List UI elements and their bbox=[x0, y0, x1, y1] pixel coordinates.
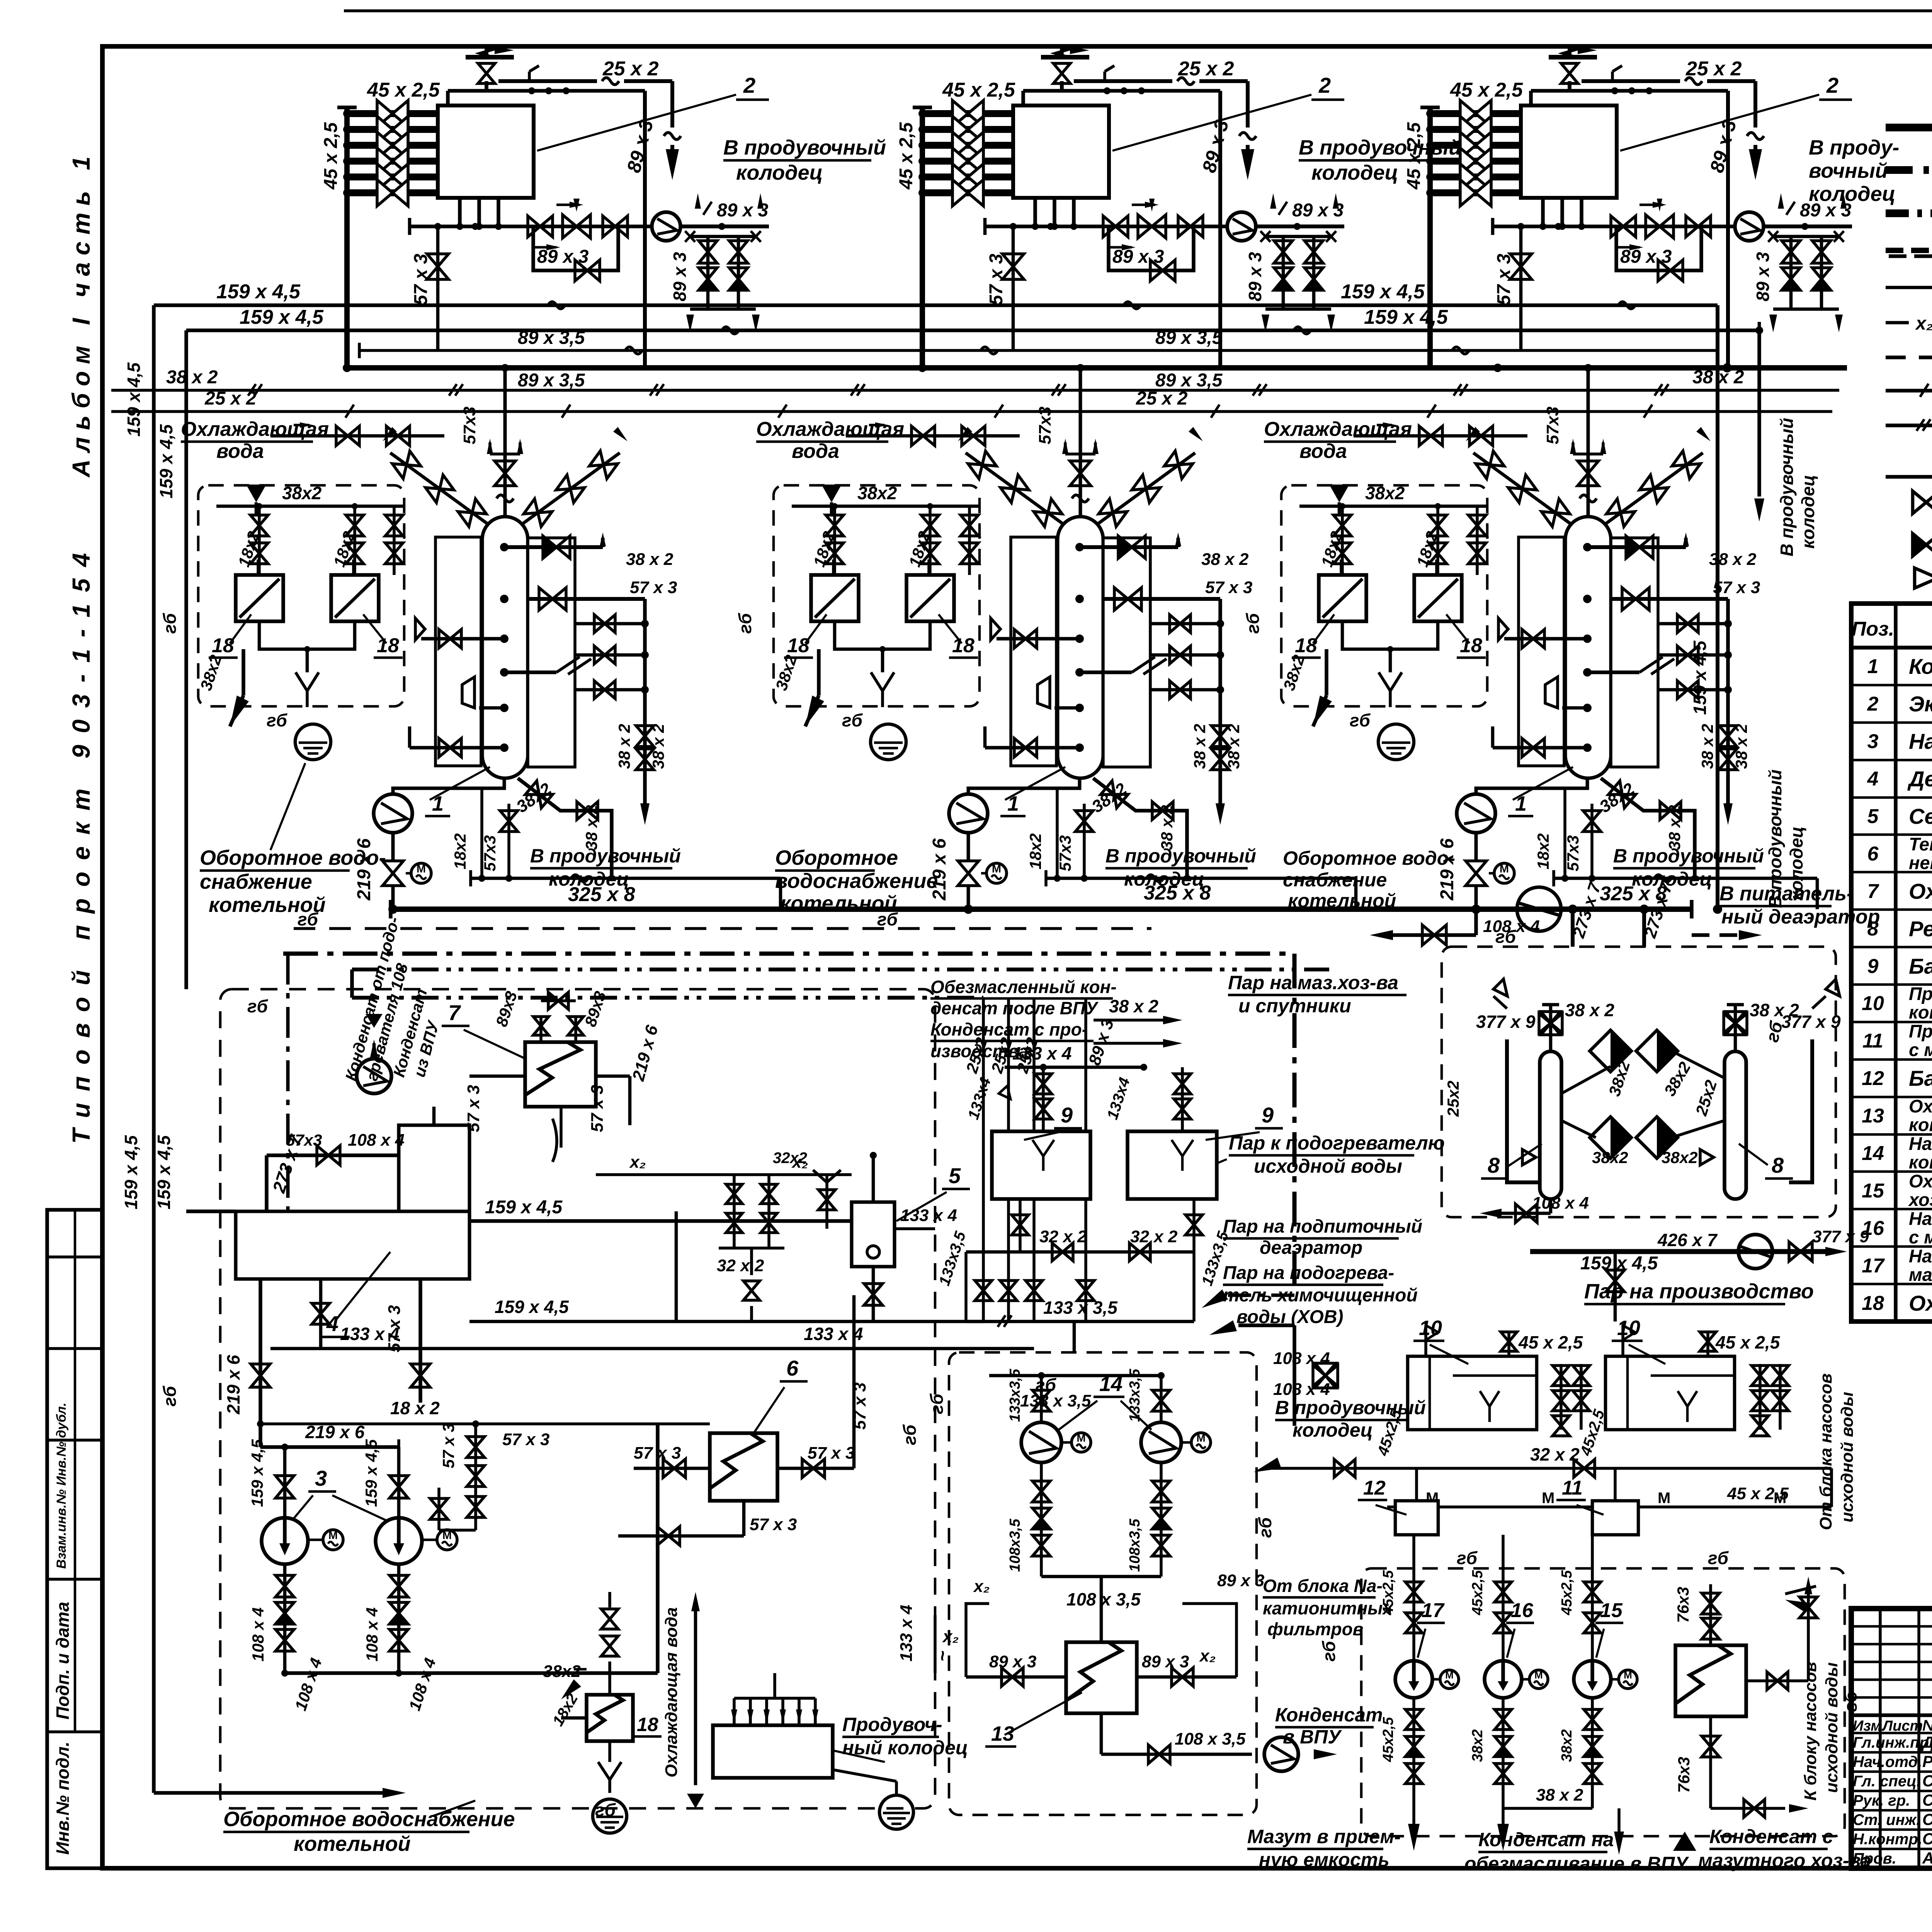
svg-text:№ докум.: № докум. bbox=[1922, 1717, 1932, 1734]
svg-text:гб: гб bbox=[1255, 1517, 1275, 1538]
svg-text:57x3: 57x3 bbox=[481, 835, 499, 871]
svg-text:Изм.: Изм. bbox=[1853, 1718, 1886, 1734]
hx13 outlet to VPU bbox=[1100, 1713, 1103, 1754]
drain of hx18 bbox=[608, 1741, 611, 1762]
svg-text:12: 12 bbox=[1862, 1067, 1884, 1090]
svg-text:M: M bbox=[417, 863, 426, 875]
svg-text:колодец: колодец bbox=[1311, 161, 1398, 184]
legend line kondensat bbox=[1886, 355, 1932, 359]
box 12 bbox=[1395, 1501, 1438, 1535]
boiler 2 left screen bbox=[1011, 537, 1056, 766]
svg-text:x₂: x₂ bbox=[1199, 1646, 1216, 1665]
svg-text:38x2: 38x2 bbox=[1592, 1148, 1628, 1167]
legend line pitatelnoy vody bbox=[1886, 286, 1932, 289]
svg-text:38x2: 38x2 bbox=[1469, 1729, 1486, 1762]
svg-text:38x2: 38x2 bbox=[1365, 483, 1405, 503]
svg-text:2: 2 bbox=[743, 73, 755, 97]
svg-text:108 x 3,5: 108 x 3,5 bbox=[1066, 1589, 1141, 1609]
svg-text:Пар на подпиточный: Пар на подпиточный bbox=[1223, 1216, 1422, 1237]
133x4 line from separator down bbox=[270, 1347, 1034, 1350]
svg-text:М: М bbox=[1658, 1490, 1670, 1507]
38x2 bottom line bbox=[1503, 1807, 1592, 1810]
svg-text:Мазут в прием-: Мазут в прием- bbox=[1247, 1826, 1401, 1847]
svg-text:колодец: колодец bbox=[1786, 827, 1806, 900]
drain header under drum bbox=[471, 877, 781, 880]
svg-text:45 x 2,5: 45 x 2,5 bbox=[1715, 1332, 1781, 1352]
svg-text:18: 18 bbox=[637, 1714, 658, 1735]
pos leader 2 bbox=[1112, 95, 1311, 151]
drum steam feed from economizer riser bbox=[1611, 597, 1728, 601]
M traced line 45x2,5 bbox=[1387, 1505, 1832, 1509]
svg-text:4: 4 bbox=[1867, 768, 1879, 790]
block 8 dashed box bbox=[1442, 947, 1836, 1217]
svg-text:водоснабжение: водоснабжение bbox=[775, 869, 938, 893]
valves above probe coolers 18x2 bbox=[792, 505, 980, 508]
block 18 boundary dashed box bbox=[774, 485, 980, 706]
svg-text:с мазутного хозяйства: с мазутного хозяйства bbox=[1909, 1039, 1932, 1060]
svg-text:45x2,5: 45x2,5 bbox=[1380, 1717, 1396, 1762]
condensate header into deaerator column bbox=[469, 1320, 983, 1323]
32x2 line bbox=[1267, 1467, 1832, 1470]
drum upper right check valve line bbox=[1080, 545, 1178, 549]
svg-text:гб: гб bbox=[927, 1393, 947, 1414]
hx 7 vypar cooler bbox=[525, 1042, 596, 1107]
svg-text:45 x 2,5: 45 x 2,5 bbox=[1518, 1332, 1583, 1352]
svg-text:45 x 2,5: 45 x 2,5 bbox=[367, 79, 440, 101]
svg-text:6: 6 bbox=[786, 1356, 799, 1380]
svg-text:89 x 3: 89 x 3 bbox=[1217, 1571, 1264, 1590]
blowdown well bbox=[713, 1725, 833, 1778]
svg-text:2: 2 bbox=[1867, 693, 1879, 715]
svg-text:45x2,5: 45x2,5 bbox=[1469, 1570, 1486, 1616]
svg-text:Промежуточный бак конденсата: Промежуточный бак конденсата bbox=[1909, 1021, 1932, 1041]
18x2 recirculation line bbox=[260, 1422, 710, 1425]
svg-text:3: 3 bbox=[315, 1466, 327, 1490]
legend line x2 himochishchennoy bbox=[1886, 321, 1909, 325]
svg-text:M: M bbox=[1624, 1669, 1632, 1681]
svg-text:25 x 2: 25 x 2 bbox=[204, 388, 257, 409]
svg-text:89 x 3: 89 x 3 bbox=[1753, 252, 1773, 301]
svg-text:вода: вода bbox=[1299, 440, 1347, 463]
svg-text:325 x 8: 325 x 8 bbox=[1144, 882, 1211, 904]
svg-text:15: 15 bbox=[1600, 1599, 1623, 1622]
svg-text:5: 5 bbox=[949, 1163, 961, 1188]
probe cooler outlet funnel and drain bbox=[1342, 621, 1438, 649]
economizer 2 body bbox=[438, 105, 534, 198]
svg-text:гб: гб bbox=[247, 996, 269, 1016]
svg-text:7: 7 bbox=[1867, 880, 1879, 903]
pumps 14 pair bbox=[1040, 1376, 1043, 1422]
svg-text:8: 8 bbox=[1772, 1153, 1784, 1177]
periodic blowdown from drum bottom bbox=[1601, 778, 1695, 878]
economizer top piping bbox=[1021, 91, 1025, 105]
svg-text:Оборотное водо-: Оборотное водо- bbox=[200, 846, 386, 869]
svg-text:Подп. и дата: Подп. и дата bbox=[53, 1602, 73, 1719]
svg-text:89 x 3,5: 89 x 3,5 bbox=[518, 370, 585, 391]
cooling water funnel bbox=[821, 485, 842, 502]
svg-text:с мазутного хозяйства ВК-2/: с мазутного хозяйства ВК-2/26 bbox=[1909, 1227, 1932, 1247]
svg-text:Гл. спец.: Гл. спец. bbox=[1853, 1773, 1921, 1790]
svg-text:Продувоч-: Продувоч- bbox=[842, 1714, 942, 1735]
svg-text:76x3: 76x3 bbox=[1675, 1757, 1693, 1793]
return water line bottom left bbox=[154, 1791, 383, 1795]
periodic blowdown from drum bottom bbox=[518, 778, 612, 878]
tank 10 right bbox=[1605, 1356, 1735, 1430]
probe coolers 18 pair bbox=[811, 575, 859, 621]
svg-text:38 x 2: 38 x 2 bbox=[1536, 1786, 1583, 1804]
boiler circulating pump 219x6 bbox=[393, 778, 504, 794]
svg-text:16: 16 bbox=[1862, 1217, 1884, 1240]
boiler unit 3: economizer U2 valve bundle bbox=[1430, 110, 1521, 117]
drum left blowoff lines bbox=[1504, 637, 1587, 641]
svg-text:x₂: x₂ bbox=[973, 1577, 990, 1596]
svg-text:Приемный бак-отстойник: Приемный бак-отстойник bbox=[1909, 983, 1932, 1004]
svg-text:Охладитель производственного: Охладитель производственного bbox=[1909, 1096, 1932, 1116]
economizer 2 manifold bbox=[920, 107, 925, 368]
svg-text:Думан: Думан bbox=[1921, 1733, 1932, 1751]
svg-text:гб: гб bbox=[160, 612, 180, 634]
svg-text:14: 14 bbox=[1099, 1372, 1122, 1396]
blowdown line 25x2 to well bbox=[1074, 79, 1172, 83]
svg-text:вода: вода bbox=[792, 440, 839, 463]
svg-text:57 x 3: 57 x 3 bbox=[808, 1444, 855, 1463]
svg-text:57 x 3: 57 x 3 bbox=[502, 1430, 549, 1449]
svg-text:17: 17 bbox=[1862, 1255, 1885, 1277]
economizer 2 manifold bbox=[1427, 107, 1433, 368]
hx 15 mazut condensate cooler bbox=[1675, 1645, 1746, 1716]
svg-text:45x2,5: 45x2,5 bbox=[1559, 1570, 1575, 1616]
drain header under drum bbox=[1554, 877, 1817, 880]
svg-text:38 x 2: 38 x 2 bbox=[166, 367, 218, 388]
svg-text:M: M bbox=[328, 1529, 338, 1542]
valves above probe coolers 18x2 bbox=[1299, 505, 1487, 508]
svg-text:тель химочищенной: тель химочищенной bbox=[1223, 1285, 1418, 1306]
svg-text:катионитных: катионитных bbox=[1263, 1598, 1393, 1618]
svg-text:89 x 3,5: 89 x 3,5 bbox=[518, 328, 585, 348]
svg-text:7: 7 bbox=[448, 1000, 461, 1025]
svg-text:исходной воды: исходной воды bbox=[1822, 1662, 1841, 1793]
probe cooler outlet funnel and drain bbox=[259, 621, 355, 649]
svg-text:219 x 6: 219 x 6 bbox=[305, 1422, 365, 1442]
89x3 riser from economizer bbox=[1726, 91, 1730, 368]
parts table grid bbox=[1851, 604, 1932, 1321]
svg-text:18: 18 bbox=[952, 634, 975, 657]
blowdown line 25x2 to well bbox=[498, 79, 597, 83]
legend zadvizhka ventil bbox=[1913, 491, 1932, 514]
svg-text:32 x 2: 32 x 2 bbox=[1130, 1227, 1178, 1246]
boiler 2 right screen bbox=[1103, 538, 1150, 767]
svg-text:M: M bbox=[1534, 1669, 1543, 1681]
reduction valves black diamonds bbox=[1590, 1030, 1631, 1071]
cooling water inlet bbox=[1354, 434, 1527, 438]
svg-text:426 x 7: 426 x 7 bbox=[1657, 1230, 1718, 1250]
hx 18 sample cooler bottom bbox=[587, 1695, 633, 1741]
svg-text:Конденсат с про-: Конденсат с про- bbox=[930, 1019, 1088, 1039]
economizer outlet header bbox=[458, 198, 462, 226]
svg-text:89 x 3,5: 89 x 3,5 bbox=[1155, 370, 1223, 391]
svg-text:38 x 2: 38 x 2 bbox=[582, 805, 600, 850]
svg-text:25 x 2: 25 x 2 bbox=[1136, 388, 1188, 409]
108x4 branch from feed bus bbox=[1474, 909, 1478, 935]
svg-text:25 x 2: 25 x 2 bbox=[1685, 58, 1742, 80]
tank 9 left bbox=[992, 1131, 1090, 1199]
svg-text:В продувочный: В продувочный bbox=[1765, 769, 1785, 908]
svg-text:38x2: 38x2 bbox=[857, 483, 897, 503]
svg-text:Взам.инв.№ Инв.№ дубл.: Взам.инв.№ Инв.№ дубл. bbox=[54, 1403, 69, 1569]
boiler 1 right screen bbox=[528, 538, 575, 767]
deaerator 4 tank bbox=[236, 1211, 469, 1279]
svg-text:159 x 4,5: 159 x 4,5 bbox=[216, 281, 301, 303]
hx6 piping bbox=[634, 1467, 710, 1470]
feed valves row to pump bbox=[1095, 224, 1228, 228]
drum steam feed from economizer riser bbox=[1103, 597, 1220, 601]
svg-text:38x2: 38x2 bbox=[543, 1662, 581, 1681]
svg-text:8: 8 bbox=[1488, 1153, 1500, 1177]
svg-text:Охлаждающая вода: Охлаждающая вода bbox=[662, 1607, 681, 1777]
svg-text:108 x 3,5: 108 x 3,5 bbox=[1175, 1730, 1246, 1748]
cooling water funnel bbox=[1329, 485, 1349, 502]
svg-text:133 x 4: 133 x 4 bbox=[804, 1324, 863, 1344]
box 11 bbox=[1592, 1501, 1638, 1535]
svg-text:Адельсон: Адельсон bbox=[1922, 1849, 1932, 1867]
svg-text:Редукционная установка РУ-13: Редукционная установка РУ-13/6 bbox=[1909, 917, 1932, 941]
drum upper right check valve line bbox=[1587, 545, 1686, 549]
svg-text:Сухоносов: Сухоносов bbox=[1922, 1772, 1932, 1790]
svg-text:45 x 2,5: 45 x 2,5 bbox=[1727, 1484, 1789, 1503]
svg-text:В проду-: В проду- bbox=[1809, 136, 1899, 159]
tank 9 outlets bbox=[1019, 1199, 1022, 1252]
svg-text:38 x 2: 38 x 2 bbox=[626, 550, 673, 569]
svg-text:11: 11 bbox=[1562, 1477, 1583, 1499]
drain header under drum bbox=[1046, 877, 1356, 880]
svg-text:89 x 3: 89 x 3 bbox=[1245, 252, 1265, 301]
svg-text:Оборотное водо-: Оборотное водо- bbox=[1283, 847, 1455, 869]
economizer top piping bbox=[1529, 91, 1533, 105]
bottom arrows and texts bbox=[1408, 1824, 1420, 1851]
svg-text:Пар на подогрева-: Пар на подогрева- bbox=[1223, 1263, 1394, 1283]
svg-text:снабжение: снабжение bbox=[200, 870, 312, 893]
svg-text:От блока насосов: От блока насосов bbox=[1816, 1373, 1835, 1530]
feed valves row to pump bbox=[1603, 224, 1735, 228]
svg-text:108 x 4: 108 x 4 bbox=[363, 1607, 381, 1662]
svg-text:133 x 4: 133 x 4 bbox=[340, 1324, 399, 1344]
deaerator 4 column bbox=[399, 1125, 469, 1211]
svg-text:Насос питательный ЦНСГ-60-19: Насос питательный ЦНСГ-60-198 bbox=[1909, 729, 1932, 753]
svg-text:Теплообменник сепаратора: Теплообменник сепаратора bbox=[1909, 834, 1932, 854]
double drain valve assembly bbox=[690, 235, 756, 238]
blowdown arrow to recycling bbox=[817, 649, 821, 696]
svg-text:x₂: x₂ bbox=[629, 1153, 646, 1172]
drum top feed bbox=[1079, 368, 1082, 517]
svg-text:Пров.: Пров. bbox=[1853, 1850, 1896, 1867]
svg-text:Охладитель выпара ОВА-8: Охладитель выпара ОВА-8 bbox=[1909, 879, 1932, 903]
svg-text:13: 13 bbox=[1862, 1105, 1884, 1127]
bus 159x4,5 upper bbox=[154, 303, 1718, 307]
svg-text:38 x 2: 38 x 2 bbox=[1565, 1000, 1614, 1020]
svg-text:9: 9 bbox=[1262, 1103, 1274, 1127]
svg-text:159 x 4,5: 159 x 4,5 bbox=[485, 1197, 563, 1218]
svg-text:Рук. гр.: Рук. гр. bbox=[1853, 1792, 1910, 1809]
bus 89x3,5 thick bbox=[347, 365, 1847, 371]
svg-text:15: 15 bbox=[1862, 1180, 1884, 1202]
svg-text:Спранцманис: Спранцманис bbox=[1922, 1810, 1932, 1828]
svg-text:38x2: 38x2 bbox=[1662, 1148, 1697, 1167]
svg-text:18x2: 18x2 bbox=[1026, 833, 1044, 869]
svg-text:9: 9 bbox=[1061, 1103, 1073, 1127]
svg-text:89 x 3: 89 x 3 bbox=[670, 252, 690, 301]
svg-text:Котел паровой ДЕ-25-14 ГМ: Котел паровой ДЕ-25-14 ГМ bbox=[1909, 654, 1932, 679]
deaerator steam feed line 159x4,5 bbox=[469, 1219, 852, 1223]
deaerator outlet to pumps bbox=[259, 1279, 262, 1447]
margin stamp boxes bottom-left bbox=[47, 1210, 102, 1868]
svg-text:гб: гб bbox=[1243, 612, 1263, 634]
deaerator block dashed boundary bbox=[220, 989, 935, 1808]
boiler 3 left screen bbox=[1519, 537, 1564, 766]
svg-text:57x3: 57x3 bbox=[1564, 835, 1582, 871]
legend line P1.5 bbox=[1886, 209, 1932, 217]
block 18 boundary dashed box bbox=[198, 485, 404, 706]
svg-text:57 x 3: 57 x 3 bbox=[986, 253, 1007, 305]
svg-text:377 x 9: 377 x 9 bbox=[1476, 1012, 1536, 1032]
57x3 recirc valves column bbox=[474, 1424, 477, 1530]
svg-text:Обезмасленный кон-: Обезмасленный кон- bbox=[930, 977, 1117, 997]
svg-text:14: 14 bbox=[1862, 1142, 1884, 1165]
svg-text:18x2: 18x2 bbox=[1534, 833, 1552, 869]
svg-text:38x2: 38x2 bbox=[1559, 1729, 1575, 1762]
svg-text:К блоку насосов: К блоку насосов bbox=[1801, 1662, 1820, 1801]
blowdown arrow to recycling bbox=[1325, 649, 1328, 696]
par na proizvodstvo line bbox=[1530, 1249, 1832, 1254]
svg-text:89 x 3: 89 x 3 bbox=[1142, 1652, 1189, 1671]
svg-text:89 x 3,5: 89 x 3,5 bbox=[1155, 328, 1223, 348]
double drain valve assembly bbox=[1773, 235, 1839, 238]
valve columns right of tanks 10 bbox=[1560, 1364, 1563, 1430]
svg-text:Насос перекачки производстве: Насос перекачки производственного bbox=[1909, 1133, 1932, 1154]
steam main P1.5 dash-dot-dot bbox=[352, 968, 1329, 971]
svg-text:2: 2 bbox=[1318, 73, 1331, 97]
svg-text:Насос перекачки отстоявшегос: Насос перекачки отстоявшегося bbox=[1909, 1246, 1932, 1266]
separator piping bbox=[872, 1155, 875, 1202]
legend line P14 bbox=[1886, 124, 1932, 131]
vent flags tanks 10 bbox=[1424, 1325, 1427, 1356]
svg-text:108 x 4: 108 x 4 bbox=[1273, 1349, 1330, 1368]
legend line parovozdushnaya bbox=[1886, 248, 1932, 253]
svg-text:32x2: 32x2 bbox=[773, 1150, 807, 1167]
svg-text:10: 10 bbox=[1862, 992, 1884, 1015]
svg-text:16: 16 bbox=[1511, 1599, 1534, 1622]
svg-text:Оборотное: Оборотное bbox=[775, 846, 898, 869]
svg-text:Н.контр.: Н.контр. bbox=[1853, 1831, 1922, 1848]
svg-text:Сепаратор непрерывной продувки: Сепаратор непрерывной продувки Ду300 bbox=[1909, 804, 1932, 828]
RU inlet valves 38x2 bbox=[1549, 1005, 1553, 1051]
svg-text:В продувочный: В продувочный bbox=[1777, 418, 1797, 556]
svg-text:1: 1 bbox=[1867, 655, 1879, 678]
svg-text:18x2: 18x2 bbox=[451, 833, 469, 869]
svg-text:гб: гб bbox=[298, 909, 319, 929]
svg-text:38x2: 38x2 bbox=[282, 483, 322, 503]
economizer bypass 89x3 bbox=[1616, 226, 1701, 270]
svg-text:38 x 2: 38 x 2 bbox=[1201, 550, 1249, 569]
deaerator third outlet bbox=[319, 1279, 323, 1349]
89x3 riser from economizer bbox=[643, 91, 647, 368]
boiler 1 left screen bbox=[435, 537, 481, 766]
svg-text:Охлаждающая: Охлаждающая bbox=[181, 418, 329, 440]
pipes into blowdown well bbox=[733, 1698, 736, 1725]
svg-text:гб: гб bbox=[735, 612, 755, 634]
feed pump 3 left bbox=[262, 1518, 308, 1564]
svg-text:133 x 4: 133 x 4 bbox=[900, 1206, 957, 1225]
svg-text:8: 8 bbox=[1867, 918, 1879, 940]
feed pump discharges bbox=[283, 1564, 287, 1673]
svg-text:гб: гб bbox=[842, 710, 863, 730]
svg-text:Насос перекачки конденсата: Насос перекачки конденсата bbox=[1909, 1208, 1932, 1229]
svg-text:133 x 3,5: 133 x 3,5 bbox=[1020, 1391, 1091, 1410]
boiler circulating pump 219x6 bbox=[1476, 778, 1587, 794]
legend perekhod bbox=[1915, 568, 1932, 588]
pos leader 2 bbox=[1620, 95, 1819, 151]
feed pump of economizer bbox=[1735, 212, 1764, 241]
bus 25x2 continuous blowdown bbox=[111, 410, 1832, 413]
svg-text:76x3: 76x3 bbox=[1674, 1587, 1692, 1623]
svg-text:M: M bbox=[992, 863, 1001, 875]
svg-text:гб: гб bbox=[267, 710, 288, 730]
svg-text:x₂: x₂ bbox=[1915, 313, 1932, 334]
svg-text:гб: гб bbox=[900, 1424, 920, 1445]
svg-text:гб: гб bbox=[1319, 1640, 1339, 1662]
tank 10 left bbox=[1408, 1356, 1537, 1430]
legend line periodicheskaya produvka bbox=[1886, 423, 1932, 427]
svg-text:159 x 4,5: 159 x 4,5 bbox=[362, 1439, 380, 1507]
svg-text:гб: гб bbox=[1350, 710, 1371, 730]
svg-text:377 x 9: 377 x 9 bbox=[1781, 1012, 1841, 1032]
svg-text:Инв.№ подл.: Инв.№ подл. bbox=[53, 1742, 73, 1855]
valves above probe coolers 18x2 bbox=[216, 505, 404, 508]
hx 6 separator cooler bbox=[710, 1433, 777, 1501]
svg-text:M: M bbox=[1196, 1432, 1205, 1444]
svg-text:38 x 2: 38 x 2 bbox=[1109, 996, 1158, 1016]
double drain valve assembly bbox=[1265, 235, 1331, 238]
economizer bypass 89x3 bbox=[533, 226, 618, 270]
svg-text:в ВПУ: в ВПУ bbox=[1283, 1726, 1342, 1748]
108x4 outlet bottom left block8 bbox=[1549, 1199, 1553, 1213]
svg-text:57 x 3: 57 x 3 bbox=[634, 1444, 681, 1463]
svg-text:исходной воды: исходной воды bbox=[1838, 1392, 1857, 1522]
svg-text:фильтров: фильтров bbox=[1267, 1619, 1363, 1639]
svg-text:вода: вода bbox=[216, 440, 264, 463]
svg-text:9: 9 bbox=[1867, 955, 1879, 978]
svg-text:Лист: Лист bbox=[1881, 1718, 1923, 1734]
svg-text:133 x 4: 133 x 4 bbox=[1012, 1043, 1071, 1063]
svg-text:133 x 3,5: 133 x 3,5 bbox=[1043, 1298, 1118, 1318]
feed pumps 3 suction risers bbox=[283, 1447, 287, 1518]
sheet top edge bbox=[344, 9, 1932, 12]
drum right outlet column bbox=[1658, 622, 1728, 626]
drum left blowoff lines bbox=[997, 637, 1080, 641]
svg-text:М: М bbox=[1542, 1490, 1554, 1507]
feed pump suction header 219x6 bbox=[260, 1445, 399, 1449]
feed pump of economizer bbox=[652, 212, 680, 241]
deaerator inlet from left 159x4,5 bbox=[186, 1209, 236, 1213]
RU separators bbox=[1540, 1051, 1561, 1199]
svg-text:57 x 3: 57 x 3 bbox=[588, 1085, 607, 1132]
drum right outlet column bbox=[1150, 622, 1220, 626]
svg-text:38 x 2: 38 x 2 bbox=[1665, 805, 1684, 850]
svg-text:Охлаждающая: Охлаждающая bbox=[1264, 418, 1412, 440]
periodic blowdown from drum bottom bbox=[1093, 778, 1187, 878]
condensate header in box 14 bbox=[989, 1374, 1159, 1378]
57x3 drain valve bbox=[1519, 226, 1523, 350]
svg-text:18: 18 bbox=[1295, 634, 1317, 657]
